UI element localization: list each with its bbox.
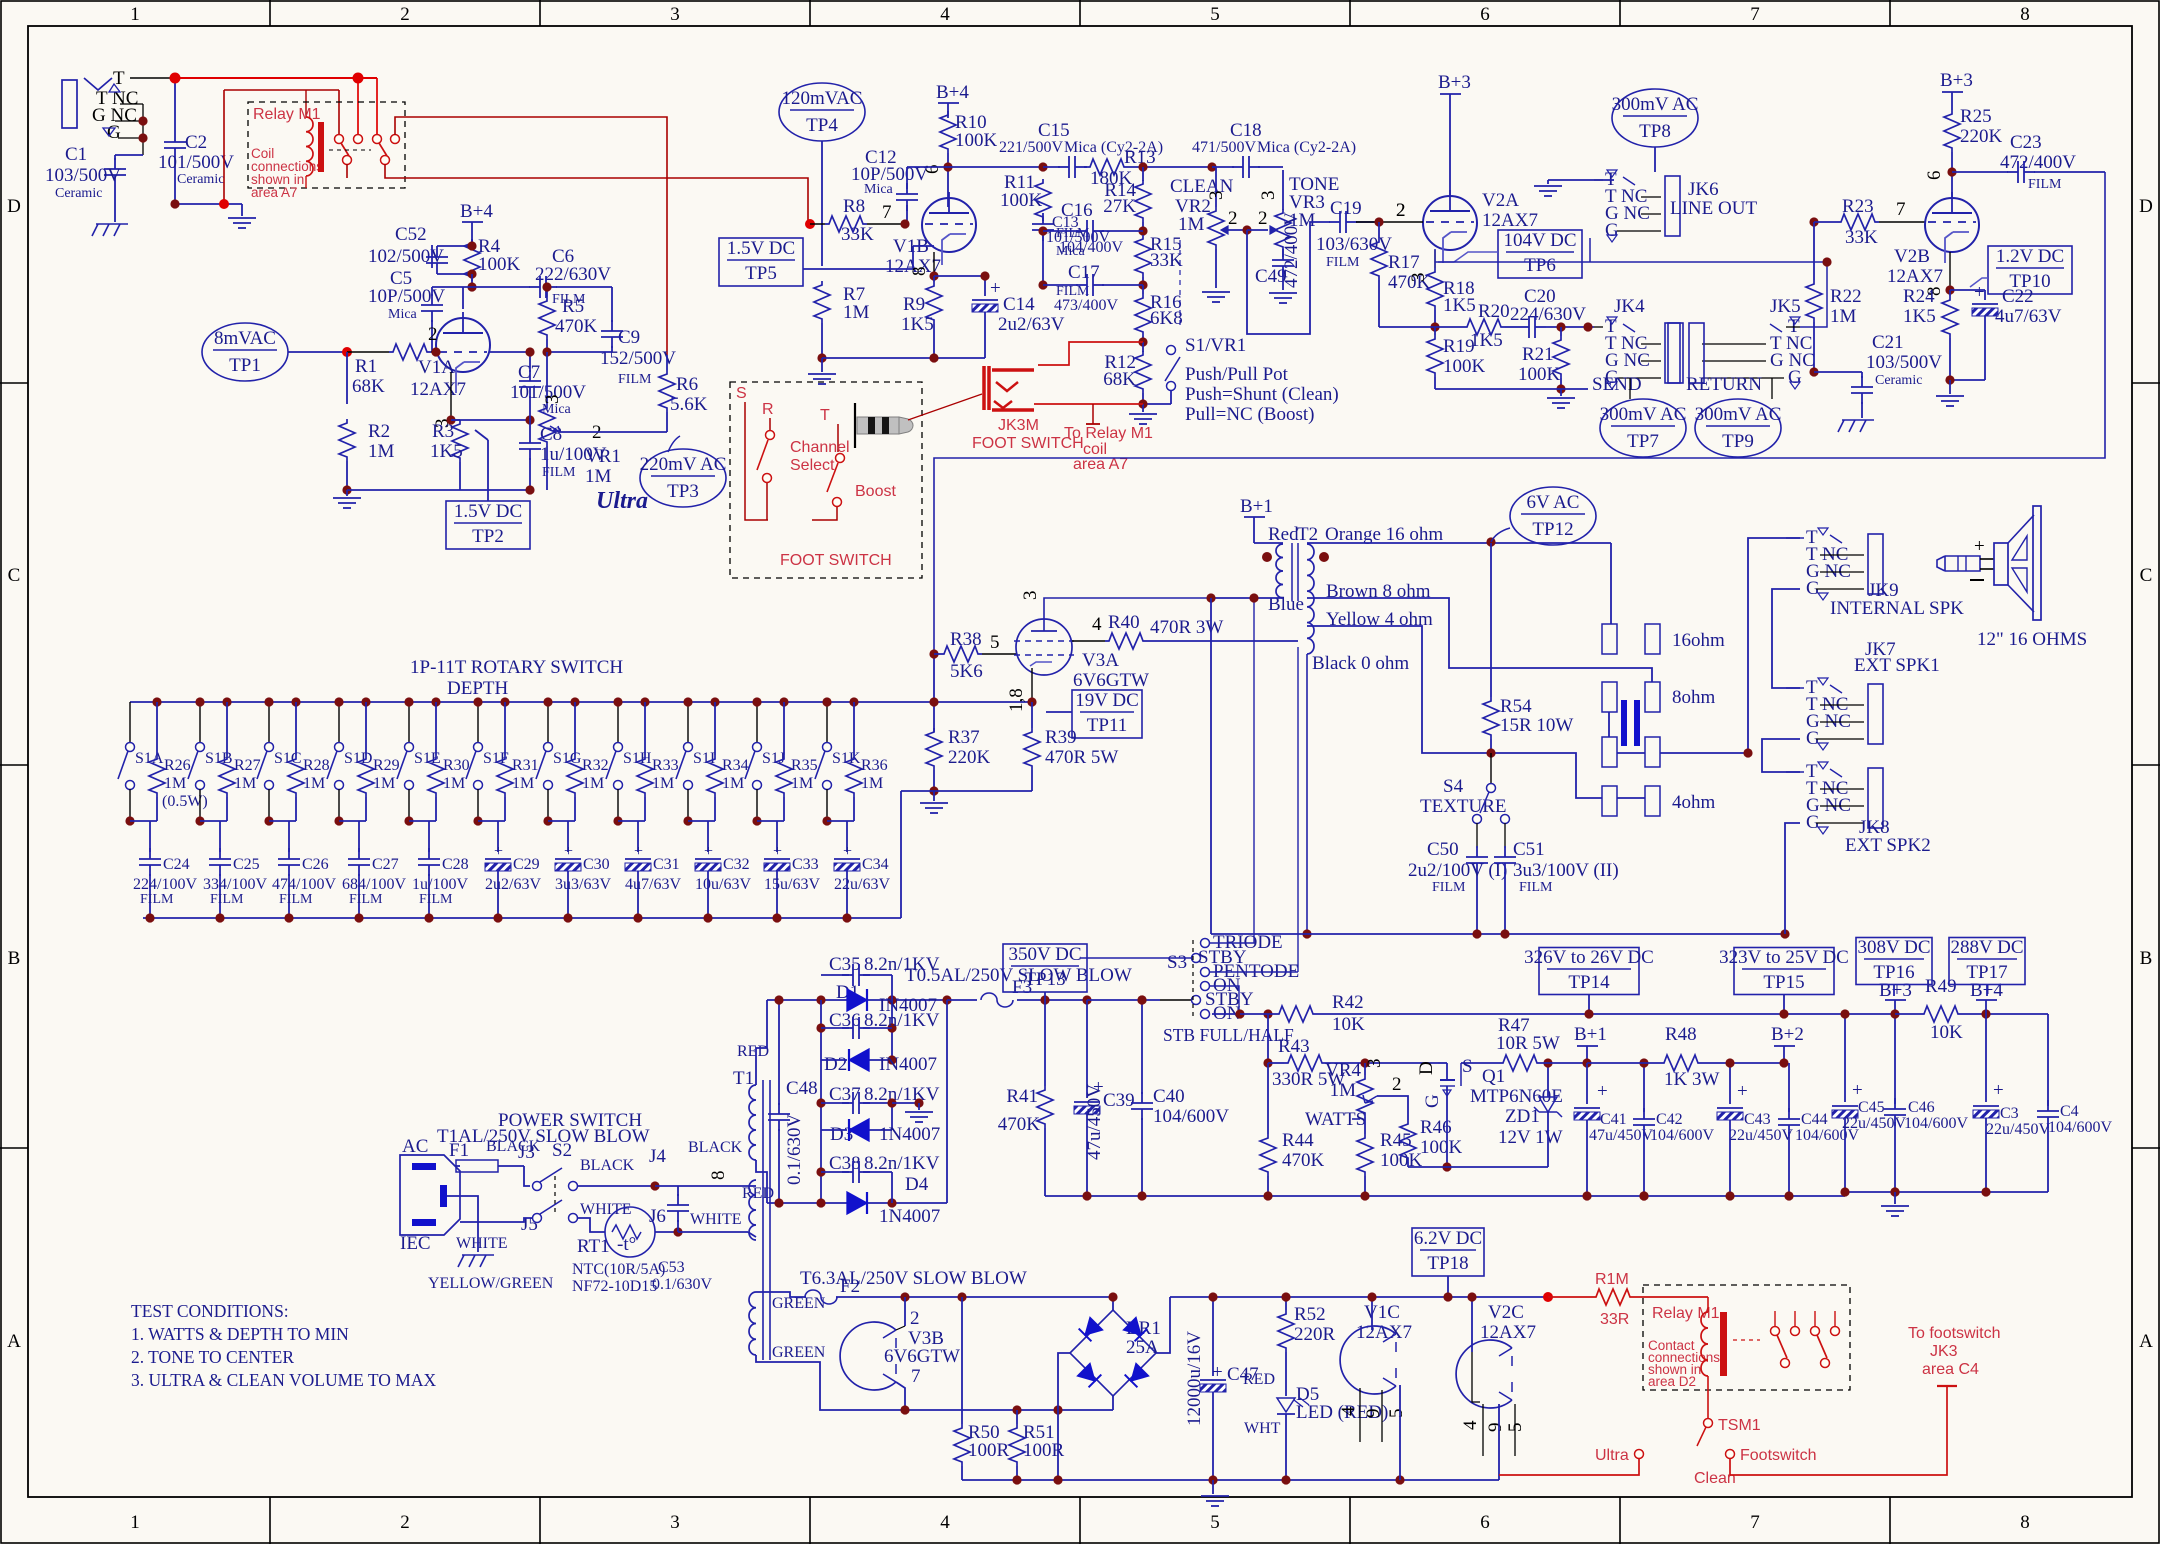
capacitor C1 [114,155,116,160]
svg-text:6: 6 [1480,4,1490,25]
svg-text:Push=Shunt (Clean): Push=Shunt (Clean) [1185,384,1339,405]
svg-text:33K: 33K [841,224,874,245]
svg-text:1M: 1M [512,775,534,792]
svg-text:C52: C52 [395,224,427,245]
V3B heater [840,1322,896,1390]
svg-text:2u2/63V: 2u2/63V [998,314,1065,335]
svg-text:C4: C4 [2060,1103,2079,1120]
test point TP5 [719,238,803,286]
svg-text:R26: R26 [164,757,191,774]
svg-text:IN4007: IN4007 [879,1054,937,1075]
wire VR1 wiper to R6 [588,431,605,433]
svg-text:7: 7 [1750,1512,1760,1533]
svg-text:15u/63V: 15u/63V [764,876,820,893]
svg-text:+: + [843,843,852,860]
capacitor C33 [776,821,778,852]
svg-text:S1/VR1: S1/VR1 [1185,335,1246,356]
svg-text:288V DC: 288V DC [1950,937,2023,958]
svg-text:R45: R45 [1380,1130,1412,1151]
tube V3A pentode [1016,619,1072,675]
resistor R33 [640,697,649,706]
resistor R9 [926,282,942,324]
svg-text:12AX7: 12AX7 [1482,210,1538,231]
svg-text:R31: R31 [512,757,539,774]
svg-text:C18: C18 [1230,120,1262,141]
test point TP17 [1949,938,2025,985]
svg-text:+: + [1974,536,1985,557]
svg-text:6V AC: 6V AC [1527,492,1580,513]
svg-text:1u/100V: 1u/100V [412,876,468,893]
boost switch [836,454,845,463]
bridge BR1 [1070,1310,1156,1396]
resistor R27 [222,697,231,706]
svg-text:TSM1: TSM1 [1718,1417,1761,1434]
svg-text:1M: 1M [861,775,883,792]
black 0 ohm wire down [1306,654,1308,934]
capacitor C42 [1643,1063,1645,1112]
svg-text:12V 1W: 12V 1W [1498,1127,1563,1148]
ground R37 [929,786,938,795]
fuse F1 [456,1165,460,1167]
svg-text:Mica: Mica [864,182,894,197]
svg-text:C44: C44 [1801,1111,1828,1128]
svg-text:1M: 1M [1830,306,1857,327]
svg-text:R20: R20 [1478,301,1510,322]
svg-text:C53: C53 [658,1259,685,1276]
svg-text:220K: 220K [948,747,991,768]
wiper routing to C19 [1247,222,1330,334]
svg-text:FILM: FILM [419,892,453,907]
capacitor C8 [529,432,531,443]
svg-text:VR1: VR1 [585,446,621,467]
svg-text:JK3: JK3 [1930,1343,1958,1360]
heater bottom bus [962,1479,1499,1481]
dashed gang line [1179,240,1181,330]
svg-text:12AX7: 12AX7 [1887,266,1943,287]
phone plug TRS [854,403,856,448]
channel select switch [766,431,775,440]
svg-text:C21: C21 [1872,332,1904,353]
svg-text:Ultra: Ultra [1595,1447,1629,1464]
switch S1H [617,702,619,742]
IEC inlet [400,1155,460,1235]
svg-text:RED: RED [737,1043,769,1060]
svg-text:TP2: TP2 [472,526,504,547]
capacitor C24 [149,821,151,852]
svg-text:Ultra: Ultra [596,488,648,514]
svg-text:C46: C46 [1908,1099,1935,1116]
svg-text:G: G [107,122,121,143]
svg-text:JK3M: JK3M [998,417,1039,434]
svg-text:BLACK: BLACK [580,1157,635,1174]
svg-text:1M: 1M [164,775,186,792]
svg-text:C38: C38 [829,1153,861,1174]
switch S1/VR1 [1167,346,1176,355]
svg-text:15R 10W: 15R 10W [1500,715,1573,736]
svg-text:3: 3 [670,4,680,25]
svg-text:S2: S2 [552,1140,572,1161]
svg-text:103/500V: 103/500V [45,165,121,186]
svg-text:TP14: TP14 [1568,972,1610,993]
svg-text:5: 5 [1210,1512,1220,1533]
doubler rails [820,1000,822,1203]
resistor R37 [926,728,942,770]
svg-text:C50: C50 [1427,839,1459,860]
svg-text:C48: C48 [786,1078,818,1099]
test point TP16 [1856,938,1932,985]
svg-text:1M: 1M [791,775,813,792]
T1 secondary RED [749,1085,756,1160]
svg-text:C51: C51 [1513,839,1545,860]
relay coil red [1707,1297,1709,1312]
svg-text:B: B [2140,948,2153,969]
svg-text:TP1: TP1 [229,355,261,376]
svg-text:8.2n/1KV: 8.2n/1KV [864,1153,940,1174]
svg-text:3: 3 [1020,591,1041,601]
svg-text:TP3: TP3 [667,481,699,502]
capacitor C28 [428,821,430,852]
svg-text:R29: R29 [373,757,400,774]
svg-text:Q1: Q1 [1482,1066,1505,1087]
svg-text:100K: 100K [478,254,521,275]
svg-text:12000u/16V: 12000u/16V [1184,1331,1205,1426]
svg-text:1M: 1M [652,775,674,792]
svg-text:Mica (Cy2-2A): Mica (Cy2-2A) [1257,139,1356,156]
svg-text:R6: R6 [676,374,698,395]
svg-text:19V DC: 19V DC [1075,690,1139,711]
svg-text:C25: C25 [233,856,260,873]
svg-text:A: A [7,1331,21,1352]
svg-text:8ohm: 8ohm [1672,687,1716,708]
svg-text:334/100V: 334/100V [203,876,267,893]
svg-text:Ceramic: Ceramic [55,186,102,201]
potentiometer VR1 [546,352,548,404]
speaker plug [1937,556,1980,571]
svg-text:323V to 25V DC: 323V to 25V DC [1719,947,1849,968]
svg-text:WHITE: WHITE [580,1201,632,1218]
wire to R43 row [1267,1014,1269,1063]
svg-text:J4: J4 [649,1146,666,1167]
svg-text:100R: 100R [968,1440,1010,1461]
T1 secondary GREEN [749,1292,756,1355]
capacitor C31 [637,821,639,852]
svg-text:FILM: FILM [279,892,313,907]
svg-text:C22: C22 [2002,286,2034,307]
svg-text:D: D [7,196,21,217]
svg-text:ZD1: ZD1 [1505,1106,1540,1127]
svg-text:Relay M1: Relay M1 [1652,1305,1720,1322]
svg-text:2: 2 [400,1512,410,1533]
svg-text:1.2V DC: 1.2V DC [1996,246,2064,267]
svg-text:S1B: S1B [205,750,233,767]
svg-text:22u/450V: 22u/450V [1729,1127,1793,1144]
to relay note [1092,404,1094,424]
svg-text:S1D: S1D [344,750,372,767]
BR1 right corner [1156,1297,1170,1353]
svg-text:4: 4 [1092,614,1102,635]
common wire to jacks [1660,538,1800,753]
svg-text:TP8: TP8 [1639,121,1671,142]
svg-text:C14: C14 [1003,294,1035,315]
svg-text:300mV AC: 300mV AC [1600,404,1687,425]
svg-text:6: 6 [1924,171,1945,181]
svg-text:473/400V: 473/400V [1054,297,1118,314]
svg-text:C: C [2140,565,2153,586]
test point TP9 [1695,399,1781,457]
svg-text:To footswitch: To footswitch [1908,1325,2000,1342]
svg-text:C43: C43 [1744,1111,1771,1128]
resistor R35 [779,697,788,706]
svg-text:3u3/63V: 3u3/63V [555,876,611,893]
svg-text:V1C: V1C [1364,1302,1400,1323]
svg-text:C37: C37 [829,1084,861,1105]
svg-text:Boost: Boost [855,483,896,500]
svg-text:100R: 100R [1023,1440,1065,1461]
svg-text:3: 3 [1364,1059,1385,1069]
resistor R36 [849,697,858,706]
svg-text:27K: 27K [1103,196,1136,217]
svg-text:68K: 68K [352,376,385,397]
svg-text:S: S [1462,1056,1473,1077]
svg-text:R42: R42 [1332,992,1364,1013]
svg-text:221/500V: 221/500V [999,139,1063,156]
svg-text:TP9: TP9 [1722,431,1754,452]
svg-text:6: 6 [1480,1512,1490,1533]
svg-text:1,8: 1,8 [1006,688,1027,712]
svg-text:C42: C42 [1656,1111,1683,1128]
ground C2 [174,185,176,204]
svg-text:12" 16 OHMS: 12" 16 OHMS [1977,629,2087,650]
svg-text:3: 3 [1408,273,1429,283]
svg-text:R1: R1 [355,356,377,377]
svg-text:1M: 1M [585,466,612,487]
svg-text:BLACK: BLACK [688,1139,743,1156]
svg-text:8: 8 [2020,4,2030,25]
svg-text:308V DC: 308V DC [1857,937,1930,958]
svg-text:C26: C26 [302,856,329,873]
test point TP3 [640,449,726,507]
svg-text:TP11: TP11 [1087,715,1127,736]
test point TP11 [1072,690,1142,738]
capacitor C27 [358,821,360,852]
svg-text:D2: D2 [824,1054,847,1075]
resistor R13 [1084,166,1087,168]
svg-text:1K5: 1K5 [1470,330,1503,351]
svg-text:EXT SPK2: EXT SPK2 [1845,835,1931,856]
svg-text:C39: C39 [1103,1090,1135,1111]
svg-text:1M: 1M [722,775,744,792]
svg-text:LINE OUT: LINE OUT [1670,198,1757,219]
wire R22 bottom to C21 [1814,371,1862,373]
svg-text:C34: C34 [862,856,889,873]
svg-text:VR4: VR4 [1325,1060,1361,1081]
grid wire from C19 [1356,221,1423,223]
input jack JK1 [62,80,77,128]
svg-text:S1K: S1K [832,750,861,767]
svg-text:471/500V: 471/500V [1192,139,1256,156]
svg-text:R2: R2 [368,421,390,442]
T1 primary [749,1180,756,1240]
svg-text:FILM: FILM [2028,177,2062,192]
wire bus to R38 node [933,654,935,732]
svg-text:TP12: TP12 [1532,519,1573,540]
8ohm pins [1602,682,1617,712]
svg-text:2: 2 [1258,208,1268,229]
svg-text:4u7/63V: 4u7/63V [625,876,681,893]
svg-text:C23: C23 [2010,132,2042,153]
relay M1 dashed box [1643,1285,1850,1390]
svg-text:2: 2 [910,1308,920,1329]
svg-text:300mV AC: 300mV AC [1612,94,1699,115]
svg-text:G: G [1422,1094,1443,1108]
resistor R4 [464,239,480,281]
svg-text:R49: R49 [1925,976,1957,997]
BR1 left corner [1058,1353,1070,1410]
svg-text:YELLOW/GREEN: YELLOW/GREEN [428,1275,554,1292]
svg-text:1: 1 [130,4,140,25]
svg-text:9: 9 [1363,1409,1384,1419]
svg-text:8.2n/1KV: 8.2n/1KV [864,954,940,975]
svg-text:300mV AC: 300mV AC [1695,404,1782,425]
texture bus [1211,933,1785,935]
fuse F3 [981,993,1013,1007]
4ohm pins [1602,786,1617,816]
wires to T1 primary [577,1185,655,1187]
svg-text:R44: R44 [1282,1130,1314,1151]
svg-text:22u/450V: 22u/450V [1986,1121,2050,1138]
resistor R34 [710,697,719,706]
return wire to V2B grid node [1800,262,1827,327]
svg-text:+: + [1737,1081,1748,1102]
svg-text:5: 5 [1210,4,1220,25]
svg-text:C15: C15 [1038,120,1070,141]
svg-text:TP6: TP6 [1524,255,1556,276]
svg-text:FILM: FILM [1056,226,1090,241]
svg-text:+: + [1993,1080,2004,1101]
svg-text:104/600V: 104/600V [1904,1115,1968,1132]
pointer line to JK3M [908,394,982,420]
switch S1B [199,702,201,742]
JK3M red jack [984,366,989,410]
svg-text:R34: R34 [722,757,749,774]
test point TP10 [1988,246,2072,294]
svg-text:S1C: S1C [274,750,302,767]
svg-text:+: + [1974,282,1985,303]
svg-text:Relay M1: Relay M1 [253,106,321,123]
svg-text:3u3/100V (II): 3u3/100V (II) [1513,860,1619,881]
svg-text:470R 3W: 470R 3W [1150,617,1223,638]
JK6 wire from cathode [1589,238,1591,262]
svg-text:Select: Select [790,457,835,474]
svg-text:101/500V: 101/500V [158,152,234,173]
svg-text:7: 7 [882,202,892,223]
svg-text:FOOT SWITCH: FOOT SWITCH [780,552,892,569]
svg-text:C3: C3 [2000,1105,2019,1122]
svg-text:GREEN: GREEN [772,1344,826,1361]
capacitor C2 [174,78,176,131]
svg-text:C16: C16 [1061,200,1093,221]
switch S1C [268,702,270,742]
svg-text:T: T [820,407,830,424]
svg-text:4u7/63V: 4u7/63V [1995,306,2062,327]
svg-text:5K6: 5K6 [950,661,983,682]
svg-text:1M: 1M [234,775,256,792]
svg-text:SEND: SEND [1592,374,1642,395]
svg-text:6V6GTW: 6V6GTW [884,1346,960,1367]
svg-text:1P-11T ROTARY SWITCH: 1P-11T ROTARY SWITCH [410,657,623,678]
svg-text:R1M: R1M [1595,1271,1629,1288]
svg-text:224/630V: 224/630V [1510,304,1586,325]
wiper node [1242,225,1251,234]
svg-text:2: 2 [1392,1074,1402,1095]
svg-text:10P/500V: 10P/500V [368,286,445,307]
svg-text:TP7: TP7 [1627,431,1659,452]
svg-text:R21: R21 [1522,344,1554,365]
tube V2A [1423,196,1477,250]
svg-text:C17: C17 [1068,262,1100,283]
svg-text:TP4: TP4 [806,115,838,136]
svg-text:Ceramic: Ceramic [177,172,224,187]
test point TP6 [1498,230,1582,278]
svg-text:R8: R8 [843,196,865,217]
svg-text:0.1/630V: 0.1/630V [784,1113,805,1185]
resistor R39 [1024,728,1040,770]
svg-text:R: R [762,401,774,418]
switch S1J [756,702,758,742]
switch S1G [547,702,549,742]
svg-text:1M: 1M [1178,214,1205,235]
capacitor C47 [1212,1297,1214,1376]
test point TP15 [1734,948,1834,995]
svg-text:474/100V: 474/100V [272,876,336,893]
svg-text:4: 4 [1338,1406,1359,1416]
svg-text:FILM: FILM [618,372,652,387]
svg-text:S1A: S1A [135,750,164,767]
svg-text:RETURN: RETURN [1686,374,1762,395]
svg-text:+: + [494,843,503,860]
svg-text:1N4007: 1N4007 [879,1124,940,1145]
capacitor C51 [1504,823,1506,848]
svg-text:8.2n/1KV: 8.2n/1KV [864,1084,940,1105]
svg-text:7: 7 [911,1366,921,1387]
svg-text:C41: C41 [1600,1111,1627,1128]
capacitor C30 [567,821,569,852]
svg-text:C33: C33 [792,856,819,873]
svg-text:FILM: FILM [140,892,174,907]
svg-text:NF72-10D15: NF72-10D15 [572,1278,657,1295]
dark red coil feed [224,89,339,91]
svg-text:9: 9 [1485,1423,1506,1433]
svg-text:470R 5W: 470R 5W [1045,747,1118,768]
svg-text:C32: C32 [723,856,750,873]
svg-text:R3: R3 [432,421,454,442]
test point TP4 [779,83,865,141]
svg-text:JK4: JK4 [1614,296,1645,317]
resistor R2 [346,352,348,404]
svg-text:C45: C45 [1858,1099,1885,1116]
svg-text:12AX7: 12AX7 [410,379,466,400]
svg-text:C2: C2 [185,132,207,153]
svg-text:R35: R35 [791,757,818,774]
svg-text:+: + [704,843,713,860]
svg-text:3: 3 [542,395,563,405]
svg-text:C35: C35 [829,954,861,975]
capacitor C26 [288,821,290,852]
test point TP8 [1612,89,1698,147]
svg-text:R25: R25 [1960,106,1992,127]
svg-text:220mV AC: 220mV AC [640,454,727,475]
svg-text:33R: 33R [1600,1311,1629,1328]
